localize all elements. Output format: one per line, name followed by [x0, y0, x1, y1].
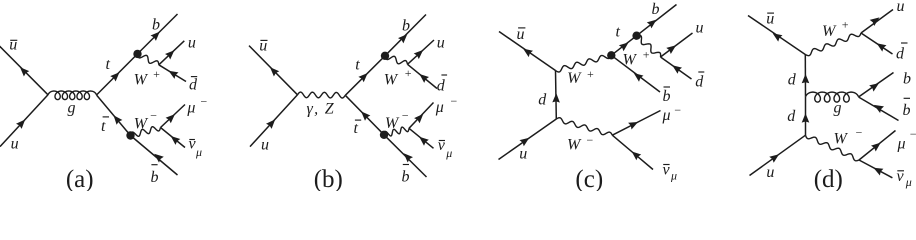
label d-bar — [896, 43, 908, 63]
t-bar quark line — [345, 95, 384, 135]
incoming u line — [0, 95, 48, 147]
svg-text:μ: μ — [435, 99, 444, 116]
arrow on b-bar — [634, 73, 644, 82]
arrow on b — [151, 32, 160, 41]
b quark line — [385, 15, 426, 56]
svg-text:d: d — [695, 74, 704, 91]
arrow on u — [266, 119, 275, 128]
arrow on d-bar — [672, 65, 682, 74]
W+ boson line — [805, 33, 861, 56]
arrow on b — [869, 83, 879, 92]
gluon line g — [806, 92, 859, 102]
arrow on b-bar — [154, 154, 164, 163]
arrow on u — [16, 120, 25, 129]
W+ boson line — [385, 56, 408, 65]
label u-bar — [9, 36, 17, 53]
arrow on d-bar — [419, 74, 429, 83]
label W- — [834, 126, 863, 148]
nu-bar_mu line — [161, 128, 186, 148]
label u-bar — [766, 10, 774, 27]
svg-text:μ: μ — [662, 107, 671, 124]
arrow on nu-bar_mu — [419, 137, 429, 146]
svg-text:b: b — [402, 169, 410, 186]
label W+ — [384, 66, 412, 89]
mu- lepton line — [612, 111, 660, 136]
svg-text:W: W — [834, 131, 849, 148]
t quark line — [345, 56, 385, 96]
svg-text:d: d — [788, 71, 797, 88]
svg-text:+: + — [841, 18, 849, 32]
arrow on b-bar — [404, 153, 413, 162]
svg-text:μ: μ — [445, 146, 452, 160]
label W- — [134, 108, 158, 132]
svg-text:μ: μ — [897, 136, 906, 153]
label b-bar — [151, 165, 159, 186]
svg-text:+: + — [642, 47, 650, 61]
svg-text:d: d — [787, 108, 796, 125]
svg-text:W: W — [822, 23, 837, 40]
antitop-decay blob — [126, 131, 134, 139]
label d-bar — [695, 72, 704, 91]
mu- lepton line — [161, 105, 186, 128]
svg-text:b: b — [152, 17, 160, 34]
svg-text:u: u — [188, 35, 196, 52]
nu-bar_mu line — [859, 160, 892, 178]
label b-bar — [903, 98, 911, 119]
b quark line — [637, 5, 677, 36]
svg-text:+: + — [152, 67, 160, 81]
label W+ (exchange) — [567, 67, 594, 87]
arrow on u from W+ — [666, 45, 676, 54]
svg-text:b: b — [903, 70, 911, 87]
arrow on u from W+ — [414, 50, 424, 59]
svg-text:−: − — [586, 133, 594, 147]
arrow on t-bar — [114, 115, 123, 125]
u quark from W+ line — [861, 10, 893, 34]
arrow on b — [647, 20, 657, 29]
label mu- — [435, 94, 458, 116]
svg-text:t: t — [101, 118, 106, 135]
svg-text:b: b — [402, 18, 410, 35]
photon/Z propagator — [298, 92, 346, 98]
incoming u line — [499, 119, 557, 160]
svg-text:u: u — [9, 36, 17, 53]
svg-text:d: d — [437, 77, 446, 94]
svg-text:d: d — [896, 46, 905, 63]
arrow on u — [520, 138, 530, 147]
arrow on mu- — [628, 122, 638, 130]
diagram (c): incoming u-bar line — [499, 32, 556, 71]
arrow on d propagator — [552, 93, 560, 103]
arrow on mu- — [871, 143, 881, 152]
label mu- — [897, 127, 916, 153]
arrow on b — [398, 34, 407, 43]
arrow on d-bar — [877, 43, 887, 51]
arrow on u from W+ — [165, 50, 174, 59]
arrow on lower d — [802, 113, 810, 122]
t quark line — [97, 54, 138, 95]
label mu- — [186, 95, 207, 117]
svg-text:u: u — [696, 20, 704, 37]
label b-bar — [663, 87, 671, 105]
svg-text:ν: ν — [663, 161, 671, 178]
svg-text:μ: μ — [905, 175, 912, 189]
nu-bar_mu line — [409, 128, 434, 148]
label t-bar — [101, 117, 109, 135]
svg-text:−: − — [200, 95, 208, 109]
nu-bar_mu line — [612, 135, 653, 169]
svg-text:ν: ν — [438, 137, 446, 154]
label mu- — [662, 103, 682, 124]
b quark from gluon line — [859, 73, 894, 98]
arrow on t — [619, 42, 629, 51]
W- boson line — [556, 118, 612, 135]
svg-text:u: u — [519, 146, 527, 163]
label W- — [385, 109, 409, 133]
label W- — [567, 133, 594, 154]
svg-text:g: g — [68, 99, 76, 116]
svg-text:W: W — [134, 115, 149, 132]
b quark line — [138, 14, 178, 54]
arrow on upper d — [802, 74, 810, 83]
W+ boson from upper vertex — [556, 55, 612, 72]
svg-text:−: − — [909, 127, 916, 141]
b-bar from gluon line — [859, 97, 899, 121]
d-bar from W+ line — [159, 65, 186, 82]
svg-text:b: b — [151, 169, 159, 186]
label nu-bar_mu — [189, 136, 203, 160]
arrow on u-bar — [523, 49, 533, 58]
arrow on d-bar — [169, 71, 179, 79]
arrow on u — [769, 154, 779, 163]
label nu-bar_mu — [663, 161, 678, 182]
svg-text:d: d — [189, 77, 198, 94]
W+ boson line — [138, 54, 159, 65]
svg-text:b: b — [652, 1, 660, 18]
antitop-decay blob — [380, 131, 388, 139]
arrow on t — [110, 72, 119, 81]
u quark from W+ line — [159, 41, 185, 65]
svg-text:d: d — [538, 92, 547, 109]
arrow on u-bar — [270, 67, 279, 76]
label u-bar — [259, 38, 267, 55]
mu- lepton line — [859, 131, 896, 161]
label nu-bar_mu — [897, 168, 912, 189]
svg-text:(b): (b) — [314, 166, 343, 191]
gluon propagator g — [48, 91, 97, 100]
label W+ (top decay) — [623, 47, 651, 68]
svg-text:μ: μ — [670, 169, 677, 183]
arrow on u-bar — [773, 33, 783, 41]
W- boson line — [131, 127, 161, 137]
b-bar quark line — [131, 136, 178, 176]
label W+ — [822, 18, 849, 41]
label d-bar — [437, 75, 447, 94]
t quark line — [611, 36, 636, 56]
incoming u line — [750, 135, 806, 175]
t-bar quark line — [97, 95, 131, 136]
u quark from W+ line — [408, 40, 435, 64]
label W+ — [134, 67, 161, 89]
svg-text:t: t — [616, 24, 621, 41]
b-bar quark line — [384, 135, 427, 177]
d-quark propagator upper segment — [804, 55, 806, 97]
svg-text:b: b — [663, 88, 671, 105]
arrow on mu- — [414, 114, 423, 123]
u quark from W+ line — [661, 33, 693, 57]
svg-text:−: − — [674, 103, 682, 117]
d-quark propagator lower segment — [805, 97, 807, 136]
diagram (b): incoming u-bar line — [249, 46, 298, 95]
svg-text:+: + — [404, 66, 412, 80]
svg-text:u: u — [766, 164, 774, 181]
arrow on t — [358, 73, 367, 82]
W-tb vertex blob — [607, 51, 615, 59]
arrow on u from W+ — [870, 17, 880, 26]
d-quark propagator line — [555, 71, 558, 120]
svg-text:(d): (d) — [814, 166, 843, 191]
arrow on nu-bar_mu — [171, 136, 181, 145]
svg-text:u: u — [437, 35, 445, 52]
svg-text:u: u — [11, 135, 19, 152]
svg-text:W: W — [134, 72, 149, 89]
arrow on nu-bar_mu — [632, 151, 642, 160]
svg-text:t: t — [355, 57, 360, 74]
svg-text:μ: μ — [195, 145, 202, 159]
W+ boson from top decay — [637, 35, 661, 57]
svg-text:u: u — [897, 0, 905, 15]
arrow on t-bar — [361, 111, 370, 120]
label b-bar — [402, 165, 410, 186]
svg-text:t: t — [106, 56, 111, 73]
arrow on u-bar — [20, 67, 29, 76]
svg-text:b: b — [903, 102, 911, 119]
svg-text:−: − — [855, 126, 863, 140]
svg-text:t: t — [354, 120, 359, 137]
svg-text:W: W — [384, 72, 399, 89]
svg-text:(a): (a) — [66, 166, 94, 191]
svg-text:−: − — [401, 109, 409, 123]
top-decay blob — [133, 50, 141, 58]
d-bar from W+ line — [661, 57, 692, 79]
top-decay blob — [381, 52, 389, 60]
d-bar from W+ line — [861, 33, 893, 54]
arrow on nu-bar_mu — [873, 168, 883, 176]
label nu-bar_mu — [438, 137, 453, 160]
label d-bar — [189, 77, 198, 94]
incoming u line — [250, 95, 298, 147]
svg-text:W: W — [385, 115, 400, 132]
svg-text:μ: μ — [186, 100, 195, 117]
svg-text:g: g — [834, 100, 842, 117]
svg-text:u: u — [261, 137, 269, 154]
svg-text:W: W — [567, 137, 582, 154]
svg-text:−: − — [450, 94, 458, 108]
diagram (d): incoming u-bar line — [748, 16, 805, 55]
arrow on b-bar — [874, 105, 884, 113]
W- boson line — [384, 127, 409, 136]
label u-bar — [517, 26, 526, 43]
svg-text:+: + — [586, 67, 594, 81]
diagram (a): incoming u-bar line — [0, 46, 48, 95]
b-bar quark line — [611, 55, 660, 92]
svg-text:γ, Z: γ, Z — [307, 101, 335, 118]
label t-bar — [354, 120, 362, 137]
mu- lepton line — [409, 103, 434, 129]
W- boson line — [806, 135, 860, 161]
d-bar from W+ line — [408, 64, 438, 88]
top-decay blob — [632, 32, 640, 40]
svg-text:(c): (c) — [575, 166, 603, 191]
svg-text:−: − — [149, 108, 157, 122]
svg-text:W: W — [567, 70, 582, 87]
arrow on mu- — [166, 114, 175, 123]
